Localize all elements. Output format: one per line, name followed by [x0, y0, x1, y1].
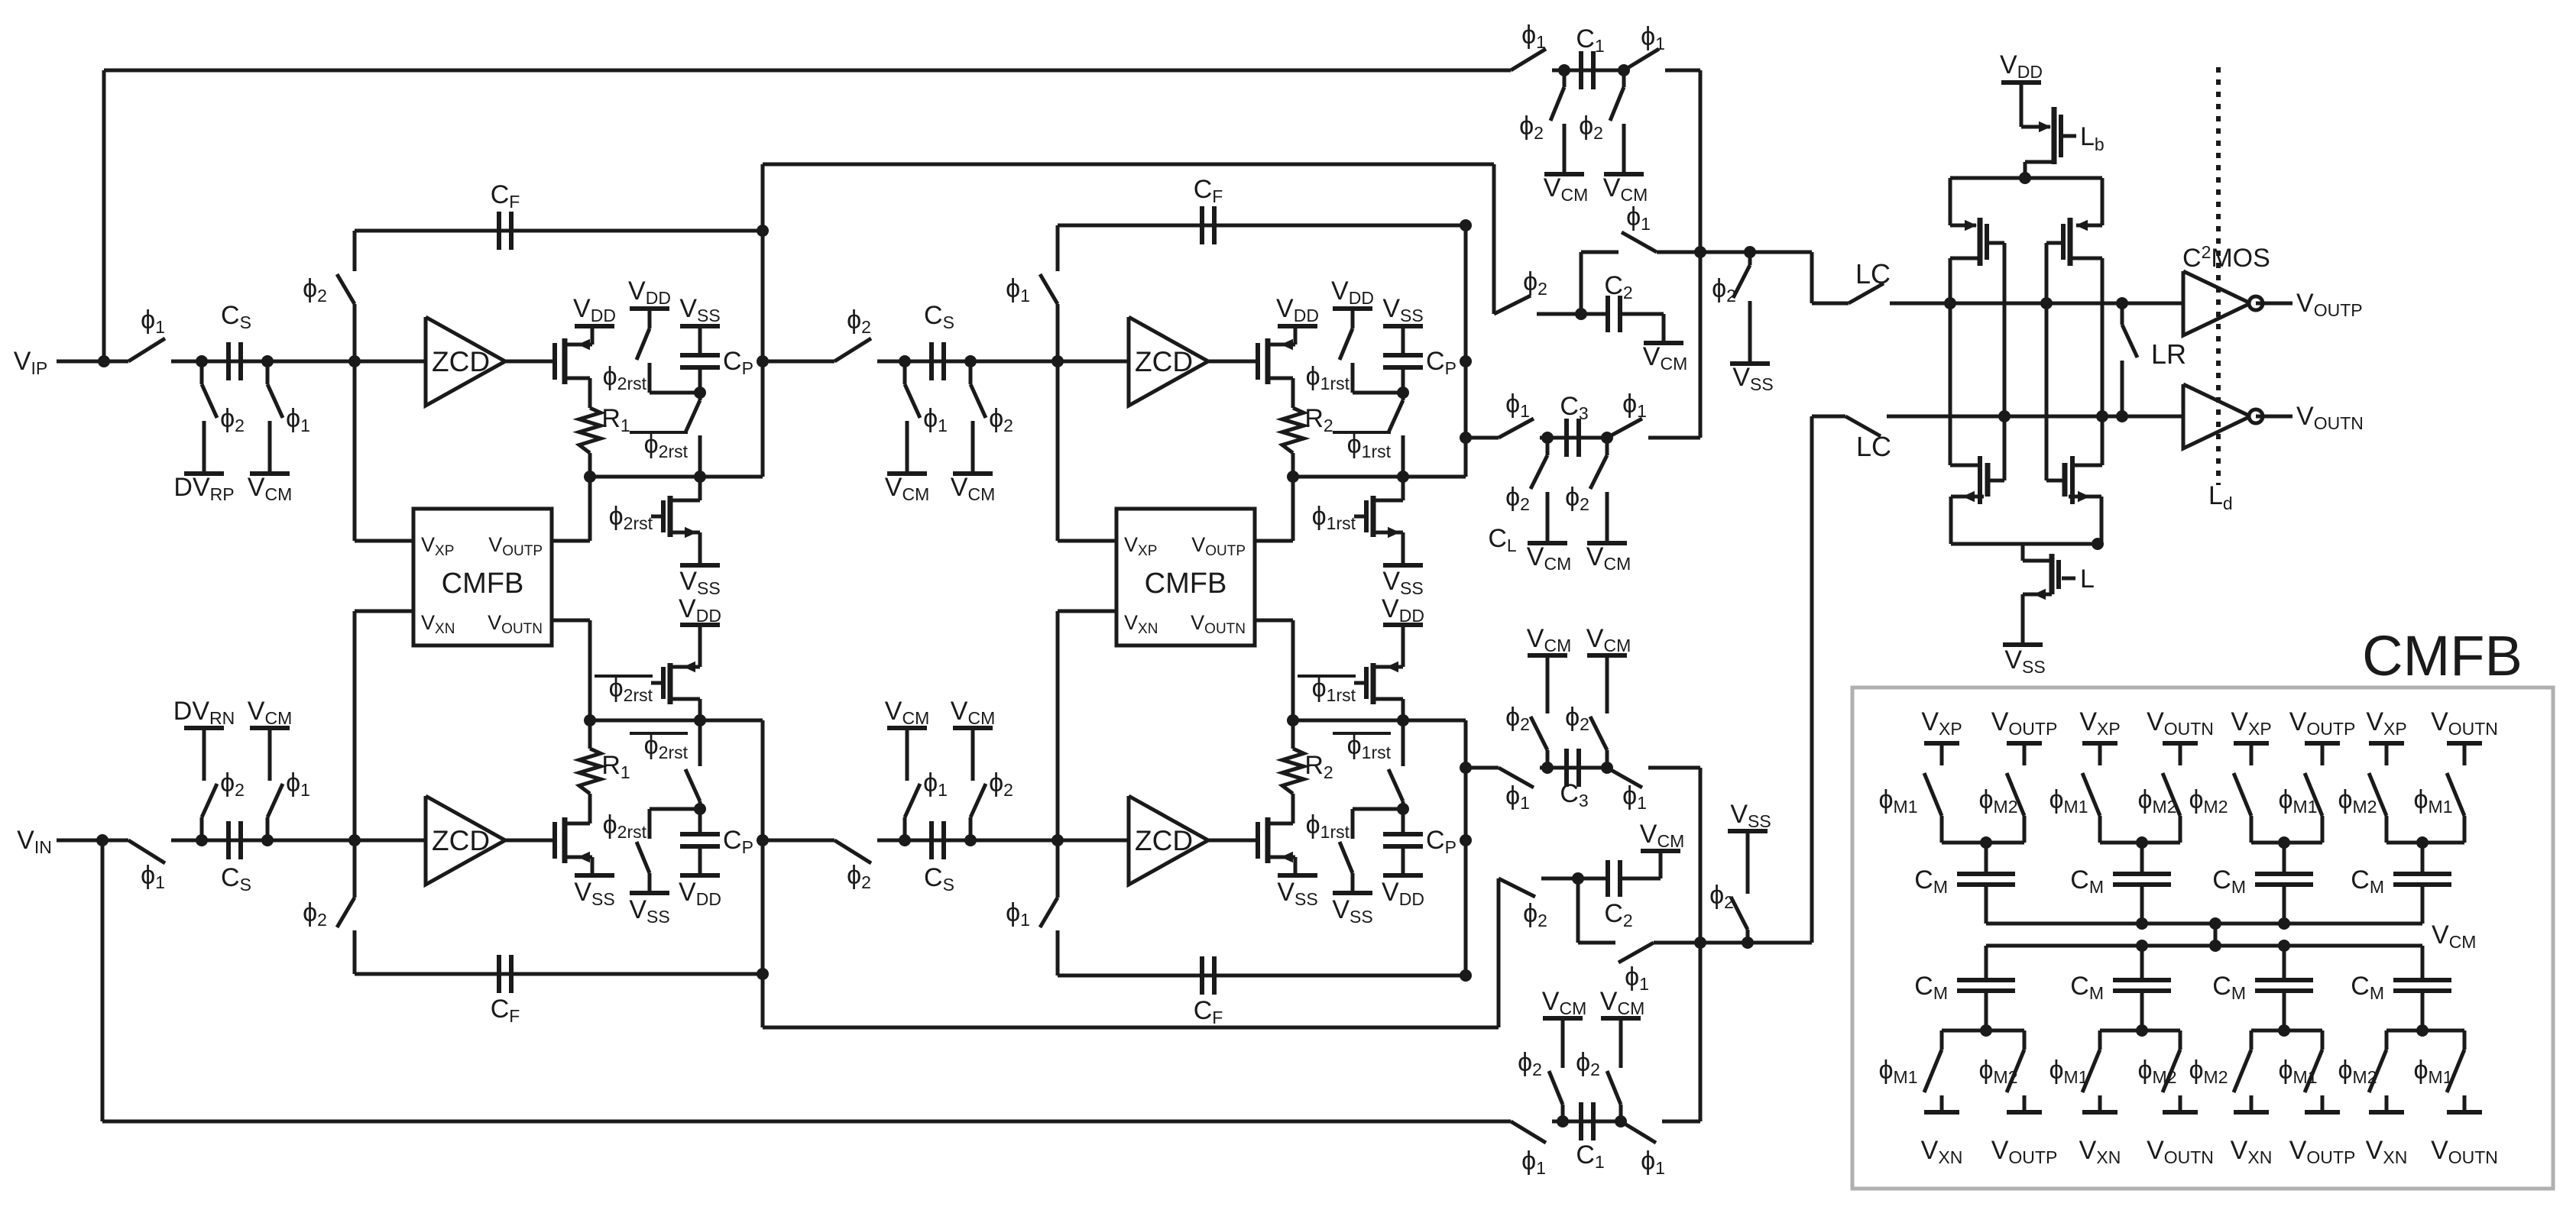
switch LR between P and N lines: [2121, 303, 2124, 325]
supply V at follower (stage2 top): [1278, 324, 1317, 328]
wire CS to ZCD (stage1 bottom): [267, 839, 426, 843]
svg-text:C2MOS: C2MOS: [2182, 242, 2270, 273]
capacitor C1 (bottom): [1552, 1120, 1621, 1124]
CMFB switch phiM1 col6 (bottom): [2321, 1030, 2325, 1050]
wire C1 right to bank vertical (top): [1699, 70, 1703, 438]
wire stage2 bottom output vertical: [1464, 720, 1468, 975]
switch phi2 + VSS on top bus: [1748, 252, 1752, 265]
capacitor CP (stage2 top): [1401, 326, 1405, 354]
CMFB node pair 4 wire (bottom): [2386, 1029, 2464, 1033]
switch ϕ2 to feedback node (stage1 top): [348, 355, 361, 367]
wire latch bottom rail: [1951, 542, 2101, 546]
switch phi2 from stage1 output to C2 (top): [1492, 164, 1496, 314]
CMFB switch phiM2 col2 (top): [2007, 773, 2024, 816]
capacitor CS (stage2 bottom): [905, 839, 970, 843]
switch ϕ1rst from V (stage2 top): [1333, 306, 1372, 311]
wire to CMFB VXN (stage2): [1056, 611, 1060, 840]
switch bar (CP node to output, stage2 bottom): [1401, 801, 1405, 809]
svg-text:CMFB: CMFB: [442, 568, 524, 600]
svg-text:L: L: [2080, 565, 2095, 594]
switch ϕ1 to feedback node (stage2 bottom): [1051, 834, 1064, 846]
CMFB node pair 2 wire (bottom): [2100, 1029, 2180, 1033]
wire CMFB VOUTP (x+0): [552, 539, 590, 543]
CMFB output VOUTP col2 (bottom): [2007, 1110, 2042, 1115]
terminal V (stage2 bottom): [887, 726, 927, 730]
CMFB switch phiM1 col3 (top): [2082, 773, 2100, 816]
resistor R1 (stage1 top): [579, 408, 601, 453]
svg-text:LC: LC: [1856, 431, 1891, 462]
CMFB node pair 2 wire (top): [2100, 841, 2180, 845]
CMFB switch phiM1 col1 (top): [1924, 773, 1942, 816]
svg-text:ZCD: ZCD: [432, 825, 490, 856]
CMFB output VXN col3 (bottom): [2082, 1110, 2118, 1115]
svg-text:CMFB: CMFB: [1145, 568, 1227, 600]
capacitor CP (stage2 bottom): [1401, 848, 1405, 875]
switch phi1 from C2' node to bus (bottom): [1576, 878, 1580, 943]
CMFB node pair 1 wire (top): [1942, 841, 2024, 845]
switch ϕ2 at CS left node (stage1 top): [200, 361, 204, 384]
switch ϕ2rst from V (stage1 top): [630, 306, 669, 311]
supply V at CP (stage1 bottom): [680, 873, 720, 878]
switch phi2 + VCM below C1 left node (top): [1563, 70, 1567, 87]
switch phi1 at C3 left (top): [1466, 436, 1499, 440]
switch phi1 at C1 left (top): [1511, 49, 1546, 70]
terminal VCM (stage1 bottom): [250, 726, 290, 730]
terminal VCM (stage1 top): [250, 471, 290, 476]
transistor follower (stage1 bottom): [552, 822, 557, 859]
transistor reset NMOS phi1rst (stage at x+920): [1364, 500, 1369, 532]
CMFB node pair 3 wire (bottom): [2251, 1029, 2322, 1033]
switch phi1 at C1 right (top): [1624, 49, 1659, 70]
CMFB switch phiM2 col5 (bottom): [2250, 1030, 2254, 1050]
capacitor CF (stage1 top): [355, 229, 763, 233]
switch LC bottom: [1812, 415, 1845, 419]
wire output junction row (stage1 bottom): [590, 719, 763, 723]
wire stage1 bottom output to C2' bank: [763, 1026, 1499, 1030]
wire to CMFB VXP (stage1): [353, 361, 357, 541]
switch phi2 + VCM above C1 right node (bottom): [1619, 1105, 1623, 1121]
supply V at follower (stage1 bottom): [575, 873, 614, 878]
resistor R2 (stage2 top): [1282, 408, 1304, 453]
CMFB switch phiM2 col4 (top): [2163, 773, 2180, 816]
wire stage1 output to C2 bank: [763, 163, 1494, 167]
wire stage1 bottom output vertical: [761, 720, 765, 1027]
wire C1 right to bank vertical (bottom): [1699, 768, 1703, 1121]
op-amp ZCD (stage1 bottom): [426, 796, 505, 885]
wire to CMFB VXP (stage2): [1056, 361, 1060, 541]
switch phi1 at C3' right (bottom): [1607, 768, 1642, 788]
capacitor CS (stage1 top): [202, 360, 267, 364]
transistor follower (stage2 top): [1256, 343, 1260, 380]
capacitor CM pair 3 (top): [2283, 843, 2286, 874]
dashed boundary Ld: [2216, 67, 2221, 485]
CMFB output VOUTP col6 (bottom): [2305, 1110, 2340, 1115]
switch phi2 + VCM above C3' right node (bottom): [1606, 750, 1609, 768]
bus collecting top bank: [1657, 251, 1812, 254]
supply V at CP (stage2 bottom): [1383, 873, 1423, 878]
svg-text:LC: LC: [1855, 258, 1891, 290]
op-amp ZCD (stage1 top): [426, 317, 505, 406]
CMFB block (stage at x+920): [1116, 509, 1255, 645]
wire CS to ZCD (stage1 top): [267, 360, 426, 364]
switch phi1 series (VIN): [128, 840, 165, 863]
supply V at CP (stage2 top): [1383, 324, 1423, 328]
wire output junction row (stage2 top): [1293, 475, 1466, 479]
wire latch top rail: [1950, 176, 2102, 180]
wire VIP to top C1 bank: [102, 70, 106, 361]
terminal DV (stage1 bottom): [184, 726, 224, 730]
capacitor CF (stage2 top): [1058, 224, 1466, 228]
wire CMFB VOUTN (x+920): [1255, 619, 1293, 623]
CMFB top bus: [1986, 922, 2422, 926]
transistor latch PMOS right: [2076, 224, 2102, 228]
svg-text:ZCD: ZCD: [1135, 825, 1193, 856]
CMFB switch phiM1 col8 (bottom): [2463, 1030, 2467, 1050]
capacitor C3' (bottom): [1540, 766, 1607, 770]
wire CS to ZCD (stage2 top): [970, 360, 1129, 364]
switch phi1 series (VIP): [128, 338, 165, 361]
switch phi2 + VSS on bottom bus: [1746, 930, 1750, 943]
capacitor C3 (top): [1540, 436, 1607, 440]
terminal VCM at C2 (top): [1644, 341, 1683, 345]
capacitor CM pair 2 (top): [2140, 843, 2144, 874]
supply V at follower (stage1 top): [575, 324, 614, 328]
CMFB switch phiM1 col6 (top): [2305, 773, 2322, 816]
CMFB switch phiM2 col5 (top): [2234, 773, 2251, 816]
switch phi2 + VCM below C3 right node (top): [1606, 438, 1609, 455]
capacitor CP (stage1 bottom): [698, 848, 702, 875]
switch phi2 + VCM below C1 right node (top): [1622, 70, 1626, 87]
switch ϕ1 at CS left node (stage2 top): [903, 361, 907, 384]
transistor follower (stage2 bottom): [1256, 822, 1260, 859]
CMFB switch phiM2 col7 (top): [2369, 773, 2386, 816]
switch phi1 from C2 node to bus (top): [1580, 252, 1583, 312]
switch phi2 series stage1-stage2 bottom: [763, 839, 834, 843]
switch ϕ1 at CS right node (stage1 bottom): [266, 817, 270, 840]
CMFB output VOUTN col4 (bottom): [2163, 1110, 2198, 1115]
CMFB switch phiM2 col4 (bottom): [2179, 1030, 2182, 1050]
supply V at follower (stage2 bottom): [1278, 873, 1317, 878]
switch phi1 at C3 right (top): [1607, 419, 1642, 438]
switch LC top: [1812, 302, 1849, 306]
CMFB switch phiM1 col8 (top): [2447, 773, 2464, 816]
terminal DV (stage1 top): [184, 471, 224, 476]
switch phi2 + VCM below C3 left node (top): [1546, 438, 1550, 455]
capacitor CS (stage1 bottom): [202, 839, 267, 843]
transistor Lb bias PMOS: [2021, 125, 2050, 129]
terminal VCM (stage2 bottom): [953, 726, 993, 730]
transistor L tail NMOS: [2021, 544, 2025, 561]
CMFB bus link + VCM label: [2214, 924, 2218, 946]
switch phi1 at C3' left (bottom): [1466, 766, 1499, 770]
capacitor CF (stage2 bottom): [1058, 974, 1466, 978]
supply VSS below reset NMOS (x+0): [680, 563, 720, 568]
CMFB switch phiM1 col3 (bottom): [2098, 1030, 2102, 1050]
capacitor CM pair 3 (bottom): [2283, 946, 2286, 980]
capacitor C2 (top): [1537, 312, 1608, 316]
svg-text:CMFB: CMFB: [2362, 624, 2523, 687]
capacitor CM pair 2 (bottom): [2140, 946, 2144, 980]
switch bar (CP node to output, stage1 bottom): [698, 801, 702, 809]
capacitor CM pair 1 (bottom): [1985, 946, 1988, 980]
CMFB detail box frame: [1852, 687, 2553, 1189]
wire CMFB VOUTN (x+0): [552, 619, 590, 623]
switch ϕ1 at CS right node (stage1 top): [266, 361, 270, 384]
CMFB switch phiM2 col2 (bottom): [2023, 1030, 2027, 1050]
CMFB output VXN col5 (bottom): [2234, 1110, 2269, 1115]
wire CS to ZCD (stage2 bottom): [970, 839, 1129, 843]
terminal V (stage2 top): [887, 471, 927, 476]
buffer C2MOS VOUTP: [2183, 271, 2250, 335]
switch phi2 from stage1 output to C2' (bottom): [1497, 878, 1501, 1027]
transistor reset NMOS phi2rst (stage at x+0): [661, 500, 666, 532]
op-amp ZCD (stage2 bottom): [1129, 796, 1208, 885]
capacitor CM pair 4 (top): [2421, 843, 2425, 874]
svg-text:LR: LR: [2151, 338, 2186, 370]
CMFB switch phiM1 col1 (bottom): [1940, 1030, 1944, 1050]
switch ϕ2rst from V (stage1 bottom): [630, 891, 669, 895]
switch ϕ2 at CS right node (stage2 bottom): [969, 817, 973, 840]
switch phi2 + VCM above C3' left node (bottom): [1546, 750, 1550, 768]
wire to CMFB VXN (stage1): [353, 611, 357, 840]
capacitor C1 (top): [1552, 69, 1624, 73]
switch phi2 + VCM above C1 left node (bottom): [1561, 1105, 1565, 1121]
capacitor CP (stage1 top): [698, 326, 702, 354]
CMFB bottom bus: [1986, 944, 2422, 948]
transistor follower (stage1 top): [552, 343, 557, 380]
switch phi1 at C1 right (bottom): [1621, 1121, 1656, 1143]
switch ϕ2 at CS left node (stage1 bottom): [200, 817, 204, 840]
transistor reset PMOS phi2rst-bar (x+0): [698, 625, 702, 667]
CMFB switch phiM2 col7 (bottom): [2385, 1030, 2389, 1050]
CMFB output VXN col1 (bottom): [1924, 1110, 1959, 1115]
capacitor CM pair 4 (bottom): [2421, 946, 2425, 980]
switch bar (CP node to output, stage2 top): [1401, 393, 1405, 400]
transistor reset PMOS phi1rst-bar (x+920): [1401, 625, 1405, 667]
supply V at CP (stage1 top): [680, 324, 720, 328]
capacitor CS (stage2 top): [905, 360, 970, 364]
wire stage1 top output vertical: [761, 164, 765, 477]
terminal VCM (stage2 top): [953, 471, 993, 476]
supply VSS latch: [2003, 642, 2043, 647]
CMFB output VOUTN col8 (bottom): [2447, 1110, 2482, 1115]
wire CMFB VOUTP (x+920): [1255, 539, 1293, 543]
switch ϕ1 to feedback node (stage2 top): [1051, 355, 1064, 367]
resistor R2 (stage2 bottom): [1282, 749, 1304, 794]
resistor R1 (stage1 bottom): [579, 749, 601, 794]
capacitor C2' (bottom): [1541, 877, 1608, 881]
node P line (to VOUTP): [1891, 302, 2183, 306]
transistor latch NMOS right: [2101, 416, 2105, 465]
CMFB block (stage at x+0): [413, 509, 552, 645]
wire VIN to bottom C1 bank: [101, 840, 105, 1121]
terminal VCM at C2' (bottom): [1641, 849, 1680, 853]
switch ϕ2 to feedback node (stage1 bottom): [348, 834, 361, 846]
svg-text:ZCD: ZCD: [432, 346, 490, 377]
op-amp ZCD (stage2 top): [1129, 317, 1208, 406]
bus collecting bottom bank: [1654, 941, 1812, 945]
switch bar (CP node to output, stage1 top): [698, 393, 702, 400]
transistor latch NMOS left: [1949, 305, 1952, 465]
node N line (to VOUTN): [1891, 415, 2183, 419]
CMFB node pair 1 wire (bottom): [1942, 1029, 2024, 1033]
CMFB node pair 3 wire (top): [2251, 841, 2322, 845]
CMFB output VXN col7 (bottom): [2369, 1110, 2404, 1115]
capacitor CM pair 1 (top): [1985, 843, 1988, 874]
CMFB node pair 4 wire (top): [2386, 841, 2464, 845]
switch ϕ1rst from V (stage2 bottom): [1333, 891, 1372, 895]
switch phi1 at C1 left (bottom): [1511, 1121, 1546, 1143]
capacitor CF (stage1 bottom): [355, 972, 763, 976]
wire stage2 top output vertical: [1464, 225, 1468, 477]
switch phi2 series stage1-stage2 top: [763, 360, 834, 364]
supply VSS below reset NMOS (x+920): [1383, 563, 1423, 568]
svg-text:ZCD: ZCD: [1135, 346, 1193, 377]
wire output junction row (stage1 top): [590, 475, 763, 479]
switch ϕ1 at CS left node (stage2 bottom): [903, 817, 907, 840]
transistor latch PMOS left: [1950, 224, 1976, 228]
wire output junction row (stage2 bottom): [1293, 719, 1466, 723]
switch ϕ2 at CS right node (stage2 top): [969, 361, 973, 384]
buffer VOUTN: [2183, 384, 2250, 448]
